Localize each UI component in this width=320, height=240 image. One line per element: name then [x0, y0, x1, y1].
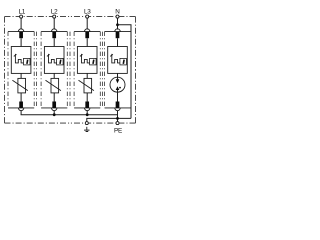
column L1: [11, 18, 31, 114]
clamp terminal top L1: [18, 29, 24, 32]
wire L1 terminal to clamp: [20, 18, 22, 29]
wire clamp to bus: [86, 110, 88, 114]
wire L3 terminal to clamp: [86, 18, 88, 29]
spark gap element box: [24, 58, 31, 65]
node junction L2/bus: [53, 113, 56, 116]
module M2 box sides: [41, 32, 67, 108]
module separator 1: [36, 32, 38, 108]
clamp terminal bottom L2: [52, 102, 56, 108]
impulse waveform symbol: [14, 54, 24, 63]
clamp terminal top L3: [84, 29, 90, 32]
wire varistor to bottom clamp: [20, 93, 22, 102]
wire box to N-PE gap: [117, 73, 119, 79]
varistor RV2: [51, 78, 59, 93]
wire clamp to spark gap box: [53, 38, 55, 46]
N-PE spark gap F1 (circle with opposing arrows): [110, 77, 125, 92]
wire N junction to right riser: [118, 25, 132, 119]
device outline (dash-dot border box): [5, 17, 136, 124]
terminal L1: [20, 15, 23, 18]
wire clamp to spark gap box: [20, 38, 22, 46]
module M1 box (dash-dot sides, solid top/bottom): [8, 32, 34, 108]
clamp terminal top N: [115, 29, 121, 32]
module top lines: [8, 31, 131, 33]
ground symbol: [86, 127, 88, 130]
module separator 2: [69, 32, 71, 108]
wire clamp to spark gap box: [86, 38, 88, 46]
spark gap U2 box: [44, 47, 64, 74]
node junction L3/bus: [86, 113, 89, 116]
module bottom lines: [8, 107, 131, 109]
node: N branch junction: [116, 23, 119, 26]
clamp terminal bottom L3: [85, 102, 89, 108]
wire N terminal to clamp: [117, 18, 119, 29]
spark gap U4 box: [108, 47, 128, 74]
impulse waveform symbol: [80, 54, 90, 63]
terminal L3: [86, 15, 89, 18]
module separator 3: [101, 32, 103, 108]
svg-text:L1: L1: [19, 9, 26, 16]
impulse waveform symbol: [110, 54, 120, 63]
spark gap U3 box: [77, 47, 97, 74]
varistor RV3: [84, 78, 92, 93]
spark gap U1 box: [11, 47, 31, 74]
bus wire (upper, L1-L3 to N): [21, 113, 117, 116]
svg-text:N: N: [115, 9, 120, 16]
module M3 box sides: [74, 32, 100, 108]
wire lower PE link: [87, 118, 131, 121]
terminal L2: [53, 15, 56, 18]
wire box to varistor: [20, 73, 22, 78]
svg-text:L3: L3: [84, 9, 91, 16]
wire varistor to bottom clamp: [86, 93, 88, 102]
spark gap element box: [90, 58, 97, 65]
column L3: [77, 18, 97, 114]
wire clamp to PE node: [117, 110, 119, 121]
spark gap element box: [120, 58, 127, 65]
wire clamp to spark gap box: [117, 38, 119, 46]
spark gap element box: [57, 58, 64, 65]
terminal earth (bottom centre): [85, 122, 88, 125]
svg-text:L2: L2: [51, 9, 58, 16]
wire clamp to bus: [20, 110, 22, 114]
wire box to varistor: [53, 73, 55, 78]
clamp terminal bottom L1: [19, 102, 23, 108]
terminal N: [116, 15, 119, 18]
column L2: [44, 18, 64, 114]
node junction N/PE link: [116, 117, 119, 120]
wire box to varistor: [86, 73, 88, 78]
svg-text:PE: PE: [114, 128, 122, 135]
clamp terminal bottom N: [116, 102, 120, 108]
impulse waveform symbol: [47, 54, 57, 63]
clamp terminal top L2: [51, 29, 57, 32]
wire clamp to bus: [53, 110, 55, 114]
column N: [108, 18, 131, 121]
varistor RV1: [18, 78, 26, 93]
wire varistor to bottom clamp: [53, 93, 55, 102]
module M4 box sides: [104, 32, 106, 108]
wire L2 terminal to clamp: [53, 18, 55, 29]
wire gap to bottom clamp: [117, 92, 119, 101]
terminal PE: [116, 122, 119, 125]
